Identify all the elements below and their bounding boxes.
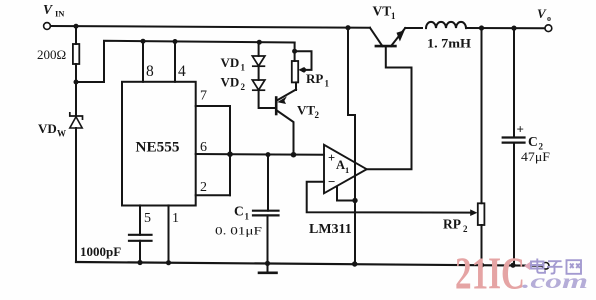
wire C1 bottom stem [267, 215, 269, 263]
node junction C1 bottom on rail [265, 261, 270, 266]
svg-text:1. 7mH: 1. 7mH [427, 36, 471, 51]
wire 200ohm bottom stem [75, 64, 77, 82]
wire NE555 pin4 stem [174, 42, 176, 82]
node junction RP2 on ground rail [479, 262, 484, 267]
svg-text:W: W [57, 129, 66, 139]
svg-text:1: 1 [345, 165, 349, 175]
terminal Vo [545, 25, 552, 32]
svg-text:A: A [336, 158, 345, 172]
wire top rail from VIN to VT1 collector [51, 26, 371, 28]
label Vo [537, 6, 551, 23]
svg-text:VD: VD [221, 55, 240, 70]
node junction VT2 collector [291, 152, 297, 158]
terminal ground output [542, 263, 549, 270]
label VT2 [297, 103, 320, 121]
wire VD1 anode stem [258, 42, 260, 56]
watermark arrow [524, 262, 530, 270]
wire pin7 [196, 106, 230, 195]
label C1 [234, 204, 250, 222]
wire comparator pull line from rail [348, 28, 355, 264]
label VD1 [221, 55, 246, 73]
node junction pin4 on rail [173, 39, 178, 44]
svg-text:1: 1 [245, 212, 250, 222]
node junction on ground rail x355 [352, 261, 357, 266]
svg-text:C: C [234, 204, 244, 219]
svg-text:21IC: 21IC [455, 249, 525, 299]
IC NE555 [122, 82, 196, 206]
svg-text:RP: RP [306, 71, 323, 86]
node junction pin7/6/2 tie [227, 151, 233, 157]
node junction 1000pF on ground rail [137, 260, 142, 265]
potentiometer RP2 [478, 203, 485, 225]
svg-text:−: − [328, 174, 335, 189]
node junction RP1 top [292, 49, 297, 54]
svg-text:V: V [43, 2, 53, 17]
capacitor C1 [253, 211, 279, 216]
node junction C1 top [266, 152, 271, 157]
node junction at x348 pull line [345, 25, 350, 30]
svg-text:IN: IN [55, 9, 65, 19]
node junction pin1 on ground rail [166, 260, 171, 265]
svg-text:VD: VD [38, 121, 57, 136]
potentiometer RP1 [292, 61, 298, 82]
svg-text:C: C [528, 134, 538, 149]
label A1 [336, 158, 349, 175]
terminal VIN [44, 23, 51, 30]
svg-text:200Ω: 200Ω [37, 47, 66, 62]
svg-text:VD: VD [221, 75, 240, 90]
label RP2 [443, 217, 468, 235]
wire pin6 net to comparator [196, 153, 324, 156]
resistor 200ohm [73, 44, 79, 64]
svg-text:o: o [547, 14, 551, 23]
node junction LM311 ground pin [352, 198, 357, 203]
svg-text:V: V [537, 6, 547, 21]
wire output rail [466, 27, 545, 29]
svg-text:1: 1 [241, 63, 246, 73]
svg-text:1: 1 [391, 11, 396, 21]
transistor VT2 [276, 90, 296, 155]
node junction at 200ohm top [74, 24, 79, 29]
svg-text:6: 6 [200, 140, 207, 155]
inductor L 1.7mH [426, 22, 466, 28]
svg-text:VT: VT [297, 103, 315, 118]
svg-text:47μF: 47μF [521, 150, 550, 164]
wire node to NE555 supply rail [76, 41, 295, 82]
svg-text:1000pF: 1000pF [80, 244, 121, 259]
wire pin2 [196, 194, 230, 196]
svg-text:8: 8 [146, 63, 154, 80]
node junction RP1 wiper [301, 68, 306, 73]
wire VT1 base to comparator output [386, 46, 412, 169]
label RP1 [306, 71, 330, 89]
op-amp A1 LM311 [324, 145, 367, 194]
svg-text:5: 5 [144, 211, 151, 226]
svg-text:2: 2 [463, 224, 468, 234]
label VD2 [221, 75, 246, 93]
wire RP1 top stem [294, 43, 296, 62]
label VT1 [373, 4, 397, 22]
wire RP2 top stem [481, 28, 483, 203]
wire VT2 emitter to RP1 bottom [295, 82, 297, 90]
wire pin1 stem [168, 205, 170, 262]
node junction VD1 anode on rail [257, 40, 262, 45]
wire RP1 rheostat loop [295, 51, 312, 70]
node junction RP2 top [479, 25, 484, 30]
svg-text:+: + [328, 151, 335, 165]
transistor VT1 [370, 28, 405, 46]
diode VD2 [252, 80, 265, 90]
wire switched node to inductor [405, 27, 422, 29]
svg-text:.com: .com [522, 269, 588, 293]
wire pin5 stem [139, 205, 141, 234]
wire ground rail [76, 262, 542, 266]
svg-text:NE555: NE555 [136, 140, 180, 156]
wire VD1-VD2 [258, 66, 260, 80]
wire NE555 pin8 stem [142, 41, 144, 82]
label C2 [528, 134, 544, 152]
wire C1 top stem [267, 155, 269, 211]
svg-text:LM311: LM311 [309, 222, 352, 237]
watermark CJK dianzi wang [531, 259, 581, 274]
svg-text:1: 1 [172, 211, 179, 226]
capacitor C2 polar [503, 138, 525, 143]
node junction below 200ohm [74, 80, 79, 85]
wire VD2 to VT2 base [259, 90, 276, 108]
diode VD1 [252, 56, 265, 66]
wiper arrow RP2 [470, 209, 477, 216]
svg-text:+: + [517, 122, 524, 137]
svg-text:2: 2 [200, 180, 207, 195]
wire inverting input to feedback [307, 182, 473, 213]
svg-text:0. 01μF: 0. 01μF [215, 224, 262, 238]
svg-text:2: 2 [315, 110, 320, 120]
wire 200ohm top stem [75, 26, 77, 44]
wire RP2 bottom stem [481, 225, 483, 265]
wire comparator output [367, 168, 412, 170]
zener diode VDW [70, 82, 83, 262]
capacitor 1000pF [129, 235, 152, 241]
node junction pin8 on rail [141, 39, 146, 44]
svg-text:2: 2 [241, 82, 246, 92]
wiper arrow RP1 [298, 67, 304, 73]
svg-text:1: 1 [325, 79, 330, 89]
svg-text:RP: RP [443, 217, 461, 232]
node junction C2 top [511, 26, 516, 31]
ground symbol [259, 263, 277, 272]
svg-text:4: 4 [178, 63, 186, 80]
svg-text:7: 7 [200, 89, 207, 104]
wire C2 bottom stem [513, 143, 515, 266]
label VDW [38, 121, 66, 139]
wire LM311 gnd pin stub [337, 187, 355, 201]
label V_IN [43, 2, 65, 19]
node junction C2 on ground rail [510, 263, 515, 268]
wire 1000pF bottom stem [139, 241, 141, 263]
wire C2 top stem [513, 28, 515, 137]
svg-text:VT: VT [373, 4, 392, 19]
